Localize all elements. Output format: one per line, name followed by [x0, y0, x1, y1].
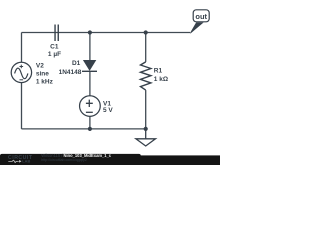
ground	[136, 129, 156, 146]
node flag out	[190, 10, 209, 33]
watermark footer bar	[0, 153, 220, 165]
svg-text:http://circuitlab.com/c/qgqty2: http://circuitlab.com/c/qgqty2	[41, 158, 87, 162]
svg-text:V2: V2	[36, 62, 44, 69]
wire left branch upper	[21, 33, 23, 63]
svg-text:1 µF: 1 µF	[48, 51, 61, 58]
svg-text:D1: D1	[72, 60, 81, 67]
wire diode to V1	[89, 71, 91, 95]
resistor R1	[141, 62, 151, 90]
junction node top-R1	[144, 30, 148, 34]
svg-text:sine: sine	[36, 71, 49, 78]
voltage source V1 (DC)	[80, 96, 101, 117]
wire diode branch upper	[89, 33, 91, 61]
wire V1 to bottom rail	[89, 116, 91, 128]
junction node top-diode	[88, 30, 92, 34]
wire R1 branch upper	[145, 33, 147, 62]
svg-text:5 V: 5 V	[103, 107, 113, 114]
svg-text:1 kΩ: 1 kΩ	[154, 76, 168, 83]
wire R1 branch lower	[145, 90, 147, 129]
junction node bottom-ground	[144, 127, 148, 131]
diode D1	[82, 60, 97, 71]
svg-text:1N4148: 1N4148	[59, 69, 82, 76]
wire top rail	[22, 32, 191, 34]
svg-text:1 kHz: 1 kHz	[36, 78, 54, 85]
svg-text:R1: R1	[154, 67, 163, 74]
voltage source V2 (sine)	[11, 62, 31, 82]
svg-text:LAB: LAB	[22, 159, 30, 164]
wire bottom rail	[22, 128, 146, 130]
svg-text:C1: C1	[50, 44, 59, 51]
junction node bottom-V1	[88, 127, 92, 131]
svg-text:out: out	[195, 12, 207, 21]
capacitor C1	[55, 25, 58, 42]
wire left branch lower	[21, 83, 23, 129]
